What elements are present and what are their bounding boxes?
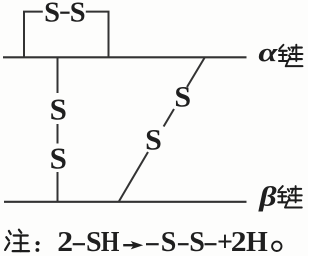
wire: top bracket right horizontal — [86, 11, 110, 13]
wire: beta chain line — [4, 201, 247, 203]
svg-text:S: S — [145, 124, 162, 157]
wire: vertical disulfide top segment — [57, 58, 59, 93]
svg-text:S: S — [70, 0, 86, 29]
wire: top bracket right vertical — [108, 12, 110, 57]
note: zhu glyph (Chinese "note") — [5, 230, 29, 251]
svg-text:2: 2 — [231, 227, 247, 256]
svg-text:S: S — [189, 227, 205, 256]
wire: top bracket left vertical — [23, 12, 25, 57]
svg-text:S: S — [44, 0, 60, 29]
note: -S-S-+2H text — [146, 243, 159, 245]
svg-text:S: S — [50, 91, 67, 126]
svg-text:α: α — [258, 38, 278, 67]
svg-text:S: S — [174, 81, 191, 114]
wire: alpha chain line — [3, 56, 247, 58]
svg-text:S: S — [50, 140, 67, 175]
svg-text:H: H — [101, 226, 120, 256]
svg-text:H: H — [246, 227, 268, 256]
node: lian glyph of beta label — [278, 186, 302, 207]
note: ideographic full stop — [272, 242, 281, 251]
wire: diagonal disulfide bottom segment — [119, 152, 148, 201]
wire: vertical disulfide bottom segment — [57, 172, 59, 202]
wire: diagonal disulfide top segment — [187, 57, 205, 87]
wire: top bracket left horizontal — [23, 11, 43, 13]
svg-text:S: S — [86, 227, 102, 256]
note: arrow — [123, 244, 133, 246]
wire: dash between top S-S — [60, 12, 69, 14]
node: lian glyph of alpha label — [279, 45, 303, 66]
wire: diagonal disulfide middle segment — [164, 109, 174, 127]
note: fullwidth colon — [36, 241, 40, 245]
svg-text:2: 2 — [57, 227, 73, 256]
svg-text:S: S — [161, 227, 177, 256]
svg-text:β: β — [258, 182, 277, 212]
wire: vertical disulfide middle segment — [57, 124, 59, 144]
